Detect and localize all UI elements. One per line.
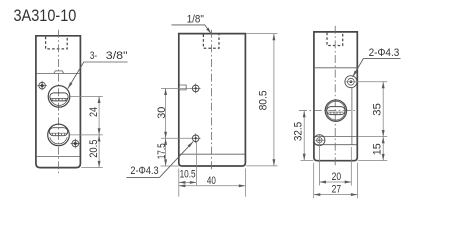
svg-text:27: 27 (332, 184, 342, 196)
svg-text:30: 30 (156, 107, 168, 119)
svg-text:80.5: 80.5 (257, 90, 269, 110)
svg-text:3-: 3- (90, 50, 97, 62)
svg-text:3A310-10: 3A310-10 (14, 6, 77, 25)
svg-text:40: 40 (207, 175, 216, 187)
svg-text:20.5: 20.5 (88, 140, 100, 158)
svg-text:3/8": 3/8" (106, 50, 128, 62)
svg-text:35: 35 (372, 103, 384, 116)
svg-text:1/8": 1/8" (187, 14, 204, 26)
svg-text:2-Φ4.3: 2-Φ4.3 (130, 165, 158, 177)
svg-text:15: 15 (372, 143, 384, 155)
svg-text:17.5: 17.5 (156, 143, 168, 159)
svg-text:32.5: 32.5 (293, 122, 305, 141)
svg-text:24: 24 (88, 107, 100, 117)
svg-text:20: 20 (332, 171, 342, 183)
svg-text:2-Φ4.3: 2-Φ4.3 (369, 47, 400, 59)
svg-text:10.5: 10.5 (180, 168, 196, 180)
